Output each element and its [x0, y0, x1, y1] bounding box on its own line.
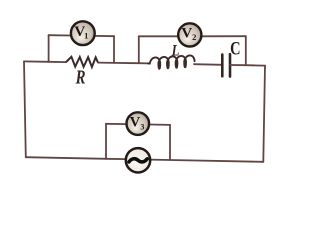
wire: V1 branch left leg	[48, 35, 50, 62]
capacitor C left plate	[221, 55, 224, 77]
wire: main line inductor to capacitor	[194, 63, 222, 66]
voltmeter V2	[178, 23, 201, 46]
wire: V2 branch left leg	[138, 36, 140, 63]
capacitor C right plate	[229, 54, 232, 76]
wire: V1 branch top left segment	[49, 34, 71, 36]
svg-text:2: 2	[192, 32, 196, 42]
wire: V2 branch top left segment	[139, 35, 179, 37]
wire: V2 branch top right segment	[202, 35, 246, 37]
inductor L coil	[148, 55, 195, 68]
wire: main top line left segment (corner to resistor)	[24, 60, 66, 63]
voltmeter V3	[127, 112, 150, 135]
wire: V1 branch right leg	[113, 36, 115, 63]
wire: V3 branch top right segment	[149, 124, 170, 126]
wire: V2 branch right leg	[245, 36, 247, 65]
AC source	[126, 148, 150, 172]
wire: main line capacitor to top-right corner	[230, 64, 265, 67]
svg-text:C: C	[230, 37, 240, 58]
wire: bottom line left segment (corner to AC source)	[26, 157, 126, 159]
wire: V3 branch right leg	[169, 125, 171, 160]
wire: left vertical of outer loop	[24, 61, 26, 157]
wire: right vertical of outer loop	[263, 66, 265, 162]
wire: V3 branch left leg	[105, 124, 107, 159]
svg-text:L: L	[171, 42, 180, 60]
svg-text:R: R	[75, 65, 86, 88]
wire: main line resistor to inductor	[98, 62, 148, 65]
svg-text:1: 1	[84, 31, 88, 41]
voltmeter V1	[71, 21, 95, 45]
wire: bottom line right segment (AC source to corner)	[150, 160, 263, 162]
resistor R zigzag	[66, 57, 98, 67]
wire: V3 branch top left segment	[106, 123, 127, 125]
svg-text:3: 3	[140, 123, 144, 132]
svg-text:V: V	[130, 115, 141, 131]
wire: V1 branch top right segment	[95, 35, 115, 37]
svg-text:V: V	[181, 26, 192, 42]
